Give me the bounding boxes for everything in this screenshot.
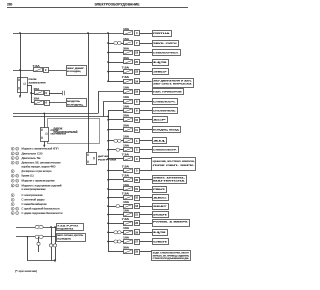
connector pin box 25: [135, 250, 140, 255]
svg-text:РЕЛЕ: РЕЛЕ: [29, 79, 38, 81]
node riser/FL2: [30, 92, 32, 94]
bus upper x=108: [108, 33, 110, 81]
wire row 12 to load: [140, 140, 152, 142]
svg-text:7: 7: [17, 213, 18, 215]
connector circle stub: [37, 242, 40, 245]
fuse row 18 7.5A: [124, 196, 133, 200]
relay K1: [18, 78, 28, 93]
load box row 22: [153, 230, 168, 236]
connector pin box 4: [135, 31, 140, 36]
svg-text:10A: 10A: [123, 201, 129, 204]
svg-text:6: 6: [17, 163, 18, 165]
fuse row 5 7.5A: [124, 70, 133, 74]
svg-text:10A: 10A: [123, 184, 129, 187]
wire row 21 to load: [140, 223, 152, 225]
wire K2 drop: [44, 113, 46, 145]
svg-text:3: 3: [12, 209, 13, 211]
svg-text:30A: 30A: [123, 246, 129, 249]
svg-text:Двигатель 5E: Двигатель 5E: [22, 158, 42, 160]
fuse row 15 7.5A: [124, 169, 133, 173]
load box row 10: [153, 117, 168, 123]
svg-text:С одной подушкой безопасности: С одной подушкой безопасности: [22, 208, 61, 211]
svg-text:7.5A: 7.5A: [122, 218, 129, 221]
node riser B: [27, 236, 29, 238]
svg-text:Двигатель 5E: автоматическая: Двигатель 5E: автоматическая: [22, 163, 62, 165]
connector pin box 18: [135, 204, 140, 209]
svg-text:ЗВУК. СИГНАЛ, ЦЗ-РУЛЬ: ЗВУК. СИГНАЛ, ЦЗ-РУЛЬ: [57, 234, 84, 237]
connector pin box 6: [45, 101, 50, 106]
wire FL1 to ECU box: [49, 70, 67, 72]
wire row 9 to load: [140, 110, 152, 112]
svg-text:Для Европы и стран экспорта: Для Европы и стран экспорта: [22, 171, 53, 173]
svg-text:и электрозеркалами: и электрозеркалами: [22, 189, 47, 191]
wire K1 through: [20, 77, 22, 92]
svg-text:0: 0: [12, 195, 13, 197]
svg-text:С иммобилайзером: С иммобилайзером: [22, 203, 47, 206]
legend row 1: [11, 147, 14, 150]
wire main feed y=33: [13, 33, 124, 35]
legend row 11: [11, 194, 14, 197]
wire FL2 out: [49, 93, 62, 95]
svg-text:ЭБУ СИСТ. ВПРЫСКА: ЭБУ СИСТ. ВПРЫСКА: [153, 82, 192, 85]
svg-text:5: 5: [12, 171, 13, 173]
svg-text:ЛЮК ОБП. ЗЕРК.: ЛЮК ОБП. ЗЕРК.: [153, 165, 196, 167]
svg-text:АБС: АБС: [153, 197, 168, 200]
wire riser 2: [55, 227, 57, 244]
wire row 14 to load: [140, 158, 152, 160]
svg-text:ЗАДН. СТЕКЛООБОГРЕВ, ОБОГР.: ЗАДН. СТЕКЛООБОГРЕВ, ОБОГР.: [153, 252, 190, 255]
wire row 9: [108, 110, 124, 112]
connector pin box 32: [135, 196, 140, 201]
fuse row 13 10A: [124, 148, 133, 152]
relay K3: [87, 153, 97, 165]
svg-text:ОБОГРЕВАТЕЛЯ: ОБОГРЕВАТЕЛЯ: [51, 132, 67, 135]
legend row 12: [11, 198, 14, 201]
wire row 24 to load: [140, 251, 152, 253]
wire row 11 to load: [140, 129, 152, 131]
wire FL3 out: [49, 102, 66, 104]
load box row 23: [153, 239, 169, 245]
wire row 4 to load: [140, 62, 152, 64]
svg-text:3: 3: [17, 149, 18, 151]
svg-text:ДАТЧИК: ДАТЧИК: [98, 155, 110, 158]
wire row 20 to load: [140, 214, 152, 216]
svg-text:СТЕКЛОПОДЪЕМНИКИ ДВ.: СТЕКЛОПОДЪЕМНИКИ ДВ.: [153, 258, 190, 260]
svg-text:ОБН: ОБН: [153, 241, 168, 243]
wire fuse FL1 feed: [13, 70, 34, 72]
svg-text:С двумя подушками безопасности: С двумя подушками безопасности: [22, 213, 64, 215]
svg-text:6: 6: [17, 209, 18, 211]
svg-text:7.5A: 7.5A: [122, 76, 129, 79]
connector pin box 3: [135, 157, 140, 162]
svg-text:10A: 10A: [123, 145, 129, 148]
svg-text:0: 0: [17, 181, 18, 183]
svg-text:10A: 10A: [123, 236, 129, 239]
wire L1 y=113.4: [13, 113, 98, 115]
svg-text:15A: 15A: [34, 97, 40, 100]
connector pin box 11: [135, 128, 140, 133]
svg-text:РУЛЕВ. А ВВЕРХ: РУЛЕВ. А ВВЕРХ: [153, 220, 189, 223]
load box row 4: [153, 60, 169, 66]
wire row 5 to load: [140, 71, 152, 73]
wire row 4: [108, 62, 124, 64]
load box row 24: [152, 251, 191, 261]
node A riser2: [54, 226, 56, 228]
node L2/bus: [107, 116, 109, 118]
wire riser B x=103.4: [103, 101, 105, 116]
svg-text:8: 8: [12, 185, 13, 187]
svg-text:7.5A: 7.5A: [33, 65, 40, 68]
svg-text:10A: 10A: [123, 96, 129, 99]
svg-text:ПОДСВЕТКА: ПОДСВЕТКА: [57, 228, 74, 231]
connector circle riser2: [53, 244, 56, 247]
svg-text:6: 6: [12, 176, 13, 178]
svg-text:7.5A: 7.5A: [122, 165, 129, 168]
fuse row 6 7.5A: [124, 80, 133, 84]
wire row 3 to load: [140, 52, 152, 54]
legend row 2: [11, 152, 14, 155]
wire bottom B: [16, 236, 56, 238]
svg-text:10A: 10A: [123, 105, 129, 108]
wire row 13: [108, 149, 124, 151]
fuse row 23 10A: [124, 240, 133, 244]
wire L2 y=116.5: [13, 116, 108, 118]
wire row 24: [108, 251, 124, 253]
wire row 18: [108, 197, 124, 199]
svg-text:10A: 10A: [123, 28, 129, 31]
wire row 22 to load: [140, 232, 152, 234]
wire row 14: [108, 158, 124, 160]
connector pin box 26: [135, 230, 140, 235]
svg-text:30A: 30A: [123, 57, 129, 60]
svg-text:2: 2: [12, 204, 13, 206]
wire row 23: [108, 241, 124, 243]
wire row 7: [98, 91, 124, 93]
svg-text:15A: 15A: [34, 88, 40, 91]
node feed/bus-top: [107, 32, 109, 34]
wire row 18 to load: [140, 197, 152, 199]
svg-text:МОДУЛЬ: МОДУЛЬ: [67, 101, 81, 103]
wire row 6 to load: [140, 81, 152, 83]
fuse row 3 30A: [124, 51, 133, 55]
svg-text:Модели с механической КПП: Модели с механической КПП: [22, 148, 59, 151]
wire row 1 to load: [140, 33, 152, 35]
svg-text:РЕЛЕ: РЕЛЕ: [51, 130, 60, 132]
connector pair bottom A: [35, 225, 39, 228]
wire FL2 feed: [31, 93, 34, 95]
svg-text:ЭБУ ДВИГ.: ЭБУ ДВИГ.: [67, 68, 85, 70]
wire FL3 feed: [31, 102, 34, 104]
fuse row 11 20A: [124, 128, 133, 132]
wire riser x=31: [31, 85, 33, 103]
load box row 13: [153, 147, 179, 153]
connector pin box 24: [135, 79, 140, 84]
svg-text:20A: 20A: [123, 125, 129, 128]
load box row 6: [153, 79, 194, 88]
fuse row 9 10A: [124, 109, 133, 113]
load box row 19: [153, 204, 169, 210]
wire row 15: [108, 170, 124, 172]
connector stub marks: [62, 91, 64, 95]
legend row 3: [11, 157, 14, 160]
fuse row 14 7.5A: [124, 157, 133, 161]
wire row 22: [108, 232, 124, 234]
svg-text:ЗАЖИГАНИЯ: ЗАЖИГАНИЯ: [29, 81, 47, 84]
wire row 11: [108, 129, 124, 131]
connector pin box 30: [135, 178, 140, 183]
load box row 11: [153, 127, 181, 133]
wire riser A x=98: [98, 92, 100, 114]
fuse FL3 15A: [35, 101, 44, 105]
svg-text:7.5A Р-РТО: 7.5A Р-РТО: [57, 225, 79, 228]
connector single row 19: [116, 205, 120, 208]
wire row 2 to load: [140, 43, 152, 45]
load box row 8: [153, 99, 178, 105]
svg-text:ЭБУ: ЭБУ: [153, 71, 168, 73]
svg-text:3: 3: [12, 163, 13, 165]
svg-text:СТЕКЛООЧИСТ.: СТЕКЛООЧИСТ.: [153, 52, 179, 54]
load box row 18: [153, 195, 169, 201]
svg-text:1: 1: [12, 153, 13, 155]
fuse row 24 30A: [124, 250, 133, 254]
connector pin box 8: [135, 100, 140, 105]
wire row 2: [108, 43, 124, 45]
box ECU engine: [67, 66, 87, 76]
svg-text:9: 9: [17, 176, 18, 178]
wire row 19 to load: [140, 206, 152, 208]
svg-text:Кроме (1): Кроме (1): [22, 176, 34, 178]
fuse row 4 30A: [124, 60, 133, 64]
load box row 16: [153, 176, 187, 184]
wire left drop x=20: [20, 33, 22, 96]
wire row 17 to load: [140, 189, 152, 191]
svg-text:Модели с подогревом сидений: Модели с подогревом сидений: [22, 184, 63, 187]
fuse row 22 10A: [124, 231, 133, 235]
svg-text:ОТОПИТЕЛЬ: ОТОПИТЕЛЬ: [153, 110, 176, 112]
svg-text:7: 7: [12, 181, 13, 183]
connector pin box 9: [135, 109, 140, 114]
connector pin box 23: [135, 70, 140, 75]
fuse row 16 7.5A: [124, 178, 133, 182]
fuse row 2 15A: [124, 41, 133, 45]
legend row 4: [11, 161, 14, 164]
connector pin box 5: [45, 91, 50, 96]
legend row 9: [11, 184, 14, 187]
svg-text:ЗЕРКАЛ, ЭЛ. ПРИВОД СИДЕНИЙ,: ЗЕРКАЛ, ЭЛ. ПРИВОД СИДЕНИЙ,: [153, 254, 190, 257]
fuse row 10 20A: [124, 118, 133, 122]
wire row 10: [108, 119, 124, 121]
svg-text:7.5A: 7.5A: [122, 193, 129, 196]
connector pin box 7: [135, 41, 140, 46]
wire bottom A: [16, 227, 56, 229]
fuse block enclosure: [48, 119, 100, 144]
bus lower x=108: [108, 111, 110, 252]
node feed/left-drop: [19, 32, 21, 34]
svg-text:С электролюком: С электролюком: [22, 195, 43, 197]
node left-drop/fuse-tap: [19, 69, 21, 71]
svg-text:(*: при наличии): (*: при наличии): [15, 270, 37, 273]
svg-text:ПАН. ПРИБОРОВ: ПАН. ПРИБОРОВ: [153, 90, 182, 93]
connector pin box 5: [135, 169, 140, 174]
svg-text:СТЕКЛООЧ.: СТЕКЛООЧ.: [153, 101, 176, 103]
svg-text:Двигатели C20: Двигатели C20: [22, 153, 44, 155]
svg-text:10A: 10A: [123, 227, 129, 230]
fuse row 1 10A: [124, 31, 133, 35]
node A riser1: [50, 226, 52, 228]
connector pin box 21: [135, 213, 140, 218]
load box row 21: [153, 220, 190, 227]
svg-text:20A: 20A: [123, 115, 129, 118]
svg-text:10A: 10A: [123, 136, 129, 139]
load box bottom 2: [57, 234, 86, 242]
svg-text:СТЕКЛООБОГР.: СТЕКЛООБОГР.: [153, 150, 177, 152]
connector pin box 16: [135, 90, 140, 95]
svg-text:Модели с правым рулем: Модели с правым рулем: [22, 181, 56, 183]
header rule: [7, 7, 188, 9]
svg-text:10A: 10A: [123, 209, 129, 212]
connector pin box 20: [135, 60, 140, 65]
node L1/K2: [43, 113, 45, 115]
svg-text:ЭЛЕКТ. АНТЕННА,: ЭЛЕКТ. АНТЕННА,: [153, 177, 185, 180]
wire row 15 to load: [140, 170, 152, 172]
fuse FL1 7.5A: [34, 68, 43, 72]
load box row 5: [153, 69, 169, 75]
connector pair bottom B: [35, 235, 39, 238]
relay K2: [41, 128, 49, 142]
svg-text:SEAT: SEAT: [153, 205, 168, 208]
wire K1 output: [27, 85, 31, 87]
svg-text:МАГНИТОЛА: МАГНИТОЛА: [153, 180, 185, 183]
svg-text:7.5A: 7.5A: [122, 66, 129, 69]
fuse row 21 7.5A: [124, 222, 133, 226]
svg-text:30A: 30A: [123, 47, 129, 50]
wire riser left L: [28, 237, 56, 261]
wire row 8: [103, 101, 123, 103]
connector pin box 2: [44, 68, 49, 73]
svg-text:АСР: АСР: [153, 119, 167, 122]
svg-text:С антенной радио: С антенной радио: [22, 199, 46, 202]
connector pin box 13: [135, 51, 140, 56]
wire row 7 to load: [140, 91, 152, 93]
svg-text:ЭЦ ВЕДОМ.: ЭЦ ВЕДОМ.: [57, 238, 71, 240]
wire row 10 to load: [140, 119, 152, 121]
arrow junction: [54, 260, 56, 263]
load box bottom 1: [57, 224, 84, 231]
svg-text:ЭБУ ДВИГАТЕЛЯ И АКП,: ЭБУ ДВИГАТЕЛЯ И АКП,: [153, 79, 192, 82]
svg-text:280: 280: [7, 2, 13, 6]
load box row 20: [153, 212, 169, 218]
wire row 13 to load: [140, 149, 152, 151]
connector pin box 1: [135, 139, 140, 144]
svg-text:ЦЗАМ МВ, ЭЛ.СТЕКЛ. WINDOW,: ЦЗАМ МВ, ЭЛ.СТЕКЛ. WINDOW,: [153, 160, 196, 163]
load box row 12: [153, 138, 167, 144]
svg-text:АЦ: АЦ: [153, 140, 166, 143]
box AC module: [67, 99, 87, 107]
legend row 7: [11, 174, 14, 177]
connector pin box 31: [135, 187, 140, 192]
connector single row 13: [116, 148, 120, 151]
connector pair row 2: [114, 41, 118, 44]
svg-text:15A: 15A: [123, 38, 129, 41]
connector pair row 12: [114, 139, 118, 142]
connector pin box 28: [135, 221, 140, 226]
wire long vertical x=88: [88, 33, 90, 152]
svg-text:2: 2: [12, 158, 13, 160]
fuse FL2 15A: [35, 91, 44, 95]
wire row 21: [108, 223, 124, 225]
svg-text:ПБЛ: ПБЛ: [153, 189, 166, 191]
load box row 7: [153, 89, 184, 95]
fuse row 19 10A: [124, 205, 133, 209]
fuse row 20 10A: [124, 213, 133, 217]
svg-text:КОНДИЦ.: КОНДИЦ.: [67, 104, 84, 106]
svg-text:1: 1: [17, 185, 18, 187]
wire row 3: [108, 52, 124, 54]
wire row 23 to load: [140, 241, 152, 243]
wire row 20: [108, 214, 124, 216]
wire stub connector B: [38, 237, 40, 242]
svg-text:5: 5: [17, 158, 18, 160]
fuse row 12 10A: [124, 139, 133, 143]
legend row 15: [11, 212, 14, 215]
wire riser 1: [51, 227, 53, 244]
fuse row 7 10A: [124, 90, 133, 94]
svg-text:коробка передач, модели 4WD: коробка передач, модели 4WD: [22, 166, 56, 168]
svg-text:7.5A: 7.5A: [122, 154, 129, 157]
svg-text:ЭЛЕКТРООБОРУДОВАНИЕ: ЭЛЕКТРООБОРУДОВАНИЕ: [95, 2, 140, 7]
legend row 8: [11, 179, 14, 182]
load box row 17: [153, 187, 167, 193]
connector pin box 2: [135, 148, 140, 153]
arrow down K2: [43, 145, 45, 148]
connector pin box 27: [135, 240, 140, 245]
fuse row 8 10A: [124, 100, 133, 104]
legend row 6: [11, 170, 14, 173]
load box row 14: [152, 158, 196, 171]
connector pair row 23: [114, 240, 118, 243]
load box row 2: [153, 41, 179, 47]
svg-text:4: 4: [17, 152, 18, 155]
load box row 9: [153, 108, 178, 114]
svg-text:4: 4: [12, 212, 13, 215]
svg-text:ПЯТНА: ПЯТНА: [153, 32, 170, 35]
connector circle riser1: [49, 244, 52, 247]
svg-text:10A: 10A: [123, 86, 129, 89]
svg-text:КОНДИЦ. ВОЗД: КОНДИЦ. ВОЗД: [153, 130, 179, 132]
svg-text:0: 0: [12, 149, 13, 151]
load box row 3: [153, 50, 181, 56]
wire row 6: [108, 81, 124, 83]
wire row 12: [108, 140, 124, 142]
node feed/long-vertical: [87, 32, 89, 34]
legend row 13: [11, 203, 14, 206]
svg-text:ЗВУК. СИГН: ЗВУК. СИГН: [153, 43, 177, 45]
load box row 1: [153, 31, 172, 37]
svg-text:ИЗЛ: ИЗЛ: [153, 214, 168, 216]
wire row 19: [108, 206, 124, 208]
wire row 16 to load: [140, 179, 152, 181]
connector pair row 22: [114, 231, 118, 234]
wire row 17: [108, 189, 124, 191]
wire row 5: [108, 71, 124, 73]
svg-text:И КОНДИЦ.: И КОНДИЦ.: [67, 71, 81, 73]
legend row 14: [11, 207, 14, 210]
fuse row 17 10A: [124, 187, 133, 191]
connector pin box 10: [135, 118, 140, 123]
svg-text:1: 1: [12, 200, 13, 202]
arrow down at x=20: [19, 95, 21, 98]
wire row 16: [108, 179, 124, 181]
